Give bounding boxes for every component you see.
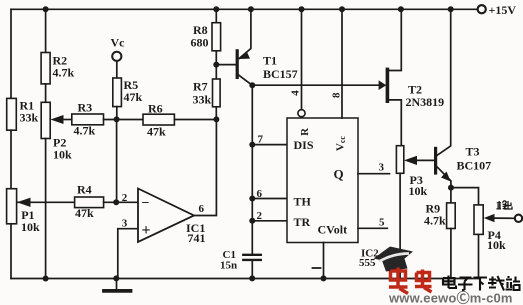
wire emitter node to P4 bbox=[451, 188, 479, 205]
wire P1 wiper to R4 bbox=[18, 201, 75, 203]
char 站 bbox=[506, 276, 521, 290]
wire 555 pin3 stub bbox=[358, 173, 390, 175]
svg-text:BC157: BC157 bbox=[263, 67, 298, 81]
svg-text:47k: 47k bbox=[75, 206, 94, 220]
svg-text:15n: 15n bbox=[220, 260, 237, 272]
svg-text:R4: R4 bbox=[77, 182, 92, 196]
potentiometer P1 bbox=[7, 189, 17, 224]
T3 emitter arrowhead NPN bbox=[441, 172, 451, 182]
resistor R5 bbox=[113, 78, 122, 107]
op-amp U1 741 bbox=[138, 189, 194, 243]
svg-text:Vc: Vc bbox=[111, 36, 126, 50]
svg-text:6: 6 bbox=[257, 188, 263, 200]
svg-text:4.7k: 4.7k bbox=[74, 124, 96, 138]
terminal +15V bbox=[478, 5, 486, 13]
potentiometer P3 bbox=[396, 146, 403, 174]
transistor Q1 T1 BC157 base wire bbox=[216, 64, 236, 66]
wire T2 drain bbox=[389, 9, 401, 70]
transistor T1 base bar bbox=[236, 51, 239, 78]
svg-text:33k: 33k bbox=[193, 93, 212, 107]
svg-text:+: + bbox=[142, 222, 151, 239]
arrowheads bbox=[17, 53, 495, 223]
svg-text:10k: 10k bbox=[487, 238, 506, 252]
svg-text:2: 2 bbox=[122, 192, 128, 204]
svg-text:R7: R7 bbox=[193, 80, 208, 94]
svg-text:47k: 47k bbox=[147, 125, 166, 139]
svg-text:R: R bbox=[299, 127, 311, 136]
svg-text:3: 3 bbox=[379, 161, 385, 173]
char 下 bbox=[474, 278, 488, 291]
wire 555 pin8 to rail bbox=[341, 9, 343, 118]
svg-text:10k: 10k bbox=[409, 184, 428, 198]
T2 gate arrowhead bbox=[379, 80, 387, 90]
svg-text:4: 4 bbox=[290, 90, 302, 96]
wire R9 to rail bbox=[450, 229, 452, 279]
terminal output bbox=[515, 215, 522, 222]
char 电 bbox=[443, 276, 456, 289]
logo graduation cap bbox=[374, 247, 414, 272]
wire R6 to R7 column bbox=[174, 119, 216, 121]
svg-text:10k: 10k bbox=[53, 148, 72, 162]
svg-text:+15V: +15V bbox=[489, 3, 517, 17]
transistor Q2 T2 2N3819 channel bar bbox=[386, 69, 390, 101]
resistor R4 bbox=[75, 197, 104, 208]
svg-text:Q: Q bbox=[334, 167, 344, 182]
svg-text:BC107: BC107 bbox=[457, 159, 492, 173]
ground bbox=[116, 279, 118, 290]
wire 555 pin7 stub bbox=[252, 144, 287, 146]
wire R4 to op-amp pin2 bbox=[104, 201, 138, 203]
wire top supply rail bbox=[11, 8, 477, 10]
transistor Q3 T3 BC107 base bar bbox=[434, 148, 437, 173]
wire R2 to P2 bbox=[45, 84, 47, 102]
logo 虫虫 red characters bbox=[389, 268, 432, 294]
svg-text:DIS: DIS bbox=[294, 138, 314, 152]
svg-text:680: 680 bbox=[191, 36, 209, 50]
svg-text:2: 2 bbox=[257, 210, 263, 222]
wire T2 gate from T1 collector bbox=[252, 84, 380, 86]
wire T3 collector bbox=[437, 9, 451, 155]
svg-text:7: 7 bbox=[258, 134, 264, 146]
svg-text:4.7k: 4.7k bbox=[424, 214, 446, 228]
wire P3 wiper to T3 base bbox=[416, 159, 434, 161]
char 子 bbox=[458, 278, 473, 291]
svg-text:33k: 33k bbox=[20, 110, 39, 124]
logo text 电子下载站 (drawn) bbox=[443, 276, 520, 291]
svg-text:3: 3 bbox=[122, 217, 128, 229]
wire Vc to R5 bbox=[116, 61, 118, 78]
svg-text:−: − bbox=[142, 196, 150, 211]
terminal Vc bbox=[112, 52, 121, 61]
resistor R9 bbox=[450, 188, 452, 203]
wire P2 wiper from R3 bbox=[61, 119, 72, 121]
svg-text:8: 8 bbox=[331, 92, 343, 98]
svg-text:10k: 10k bbox=[21, 220, 40, 234]
potentiometer P2 bbox=[41, 102, 50, 138]
svg-text:www.eewoⒸm-c0m: www.eewoⒸm-c0m bbox=[388, 291, 513, 305]
wire P4 wiper to output bbox=[494, 217, 515, 219]
wire P1 to bottom rail bbox=[10, 224, 12, 279]
capacitor C1 bbox=[243, 254, 260, 256]
wire R8 to base node bbox=[215, 51, 217, 79]
svg-text:2N3819: 2N3819 bbox=[406, 95, 445, 109]
wire op-amp pin3 bbox=[118, 229, 138, 279]
555 pin4 reset circle bbox=[298, 110, 305, 117]
wire T3 emitter bbox=[437, 167, 451, 188]
P1 wiper arrowhead bbox=[17, 198, 31, 207]
resistor R8 bbox=[215, 9, 217, 22]
wire 555 pin6 stub bbox=[252, 198, 287, 200]
char 载 bbox=[488, 276, 505, 291]
svg-text:R6: R6 bbox=[148, 102, 163, 116]
label output 输出 (drawn) bbox=[497, 201, 513, 210]
wire 555 pin4 to rail bbox=[301, 9, 303, 109]
wire 555 pin1 to rail bbox=[323, 243, 325, 279]
wire R3 to R6 bbox=[104, 119, 144, 121]
svg-text:R3: R3 bbox=[78, 101, 93, 115]
resistor R6 bbox=[143, 114, 174, 125]
wire R7 to R6 node bbox=[215, 107, 217, 120]
P2 wiper arrowhead bbox=[50, 115, 63, 124]
resistor R3 bbox=[72, 114, 104, 125]
wire R5 to node bbox=[116, 107, 118, 120]
wire R1 to P1 bbox=[10, 130, 12, 189]
wire bottom ground rail bbox=[11, 278, 479, 280]
resistor R2 bbox=[41, 53, 50, 84]
svg-text:T1: T1 bbox=[263, 54, 277, 68]
svg-text:5: 5 bbox=[379, 216, 385, 228]
transistor T1 emitter bbox=[239, 9, 251, 58]
transistor T1 collector bbox=[239, 75, 253, 144]
resistor R7 bbox=[213, 79, 221, 107]
wire op-amp output bbox=[194, 119, 216, 215]
wire P2 to bottom rail bbox=[45, 139, 47, 279]
wire column2 upper bbox=[45, 9, 47, 52]
svg-text:4.7k: 4.7k bbox=[53, 66, 75, 80]
resistor R1 bbox=[7, 98, 17, 130]
potentiometer P4 bbox=[474, 205, 483, 235]
555 pin1 dash bbox=[313, 267, 321, 269]
svg-text:741: 741 bbox=[188, 231, 206, 245]
svg-text:CVolt: CVolt bbox=[318, 222, 348, 236]
wire T2 source bbox=[389, 100, 401, 146]
wire 555 pin5 stub bbox=[358, 227, 387, 229]
IC2 555 box bbox=[287, 118, 358, 243]
svg-text:47k: 47k bbox=[124, 90, 143, 104]
P3 wiper arrowhead bbox=[404, 156, 417, 165]
svg-text:6: 6 bbox=[199, 203, 205, 215]
wire 555 pin2 stub bbox=[252, 220, 287, 222]
wire node to pin2 row bbox=[116, 120, 118, 203]
P4 wiper arrowhead bbox=[484, 214, 495, 222]
svg-text:555: 555 bbox=[359, 257, 376, 269]
svg-text:TH: TH bbox=[294, 195, 312, 209]
wire P4 to rail bbox=[478, 234, 480, 278]
wire C1 to rail bbox=[251, 261, 253, 279]
wire collector column to 555 bbox=[251, 145, 253, 254]
wire P3 bottom to rail bbox=[399, 173, 401, 278]
svg-text:T3: T3 bbox=[466, 145, 480, 159]
T1 emitter arrowhead PNP bbox=[239, 53, 250, 59]
wire left branch upper bbox=[10, 9, 12, 98]
svg-text:TR: TR bbox=[294, 215, 311, 229]
